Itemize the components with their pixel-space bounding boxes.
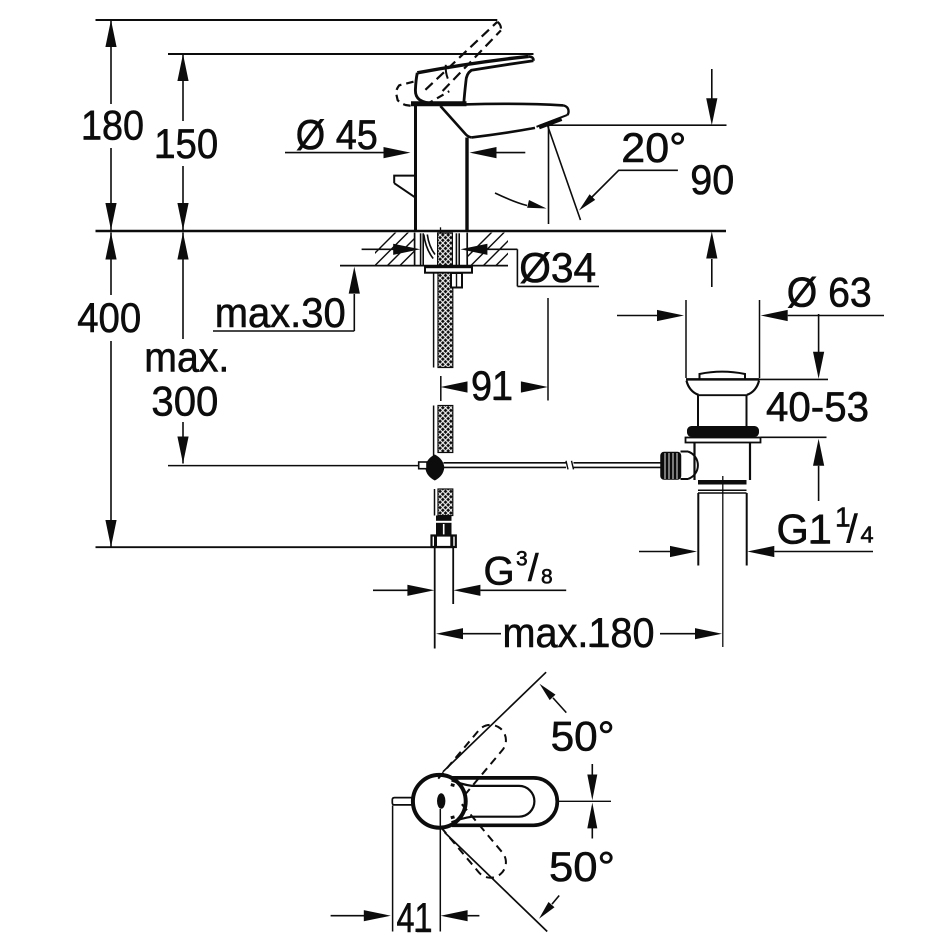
faucet body: left wall	[414, 105, 417, 230]
svg-text:400: 400	[77, 294, 141, 341]
svg-text:90: 90	[690, 156, 734, 203]
svg-text:Ø 45: Ø 45	[296, 111, 378, 158]
20 degree: leader	[591, 170, 678, 198]
hose nut	[432, 536, 456, 548]
dimension 41	[392, 806, 394, 932]
svg-text:150: 150	[154, 120, 218, 167]
svg-text:Ø34: Ø34	[519, 244, 596, 291]
top view: angle arrows at centre line	[591, 764, 593, 775]
wire: top reference line (180)	[96, 19, 498, 21]
wire: reference line (150)	[168, 53, 534, 55]
spout outlet face	[537, 115, 568, 127]
linkage rod left cap	[419, 462, 427, 469]
20 degree: swivel arc	[495, 193, 527, 206]
svg-text:20°: 20°	[621, 124, 686, 171]
drain plate	[686, 438, 761, 443]
lever tip curl	[529, 56, 534, 60]
shank walls	[421, 233, 460, 265]
braid in shank	[438, 233, 453, 266]
svg-text:180: 180	[81, 102, 144, 149]
drain flange taper	[687, 381, 699, 395]
svg-text:41: 41	[397, 894, 433, 941]
20 degree: slanted stream line	[547, 123, 581, 221]
dimension max.180	[436, 628, 463, 639]
svg-text:4: 4	[861, 521, 874, 547]
linkage joint	[425, 455, 444, 481]
lever pivot block outline	[415, 73, 433, 104]
drain neck walls	[697, 395, 699, 426]
hose end connector	[436, 516, 452, 536]
svg-text:300: 300	[151, 377, 218, 424]
dimension G1 1/4	[639, 551, 671, 553]
dashed diagonal through pivot	[426, 91, 449, 104]
dimension 40-53	[760, 378, 829, 380]
dimension 90: top reference line	[547, 124, 727, 126]
counter hatching left	[362, 231, 435, 266]
dimension max.300	[182, 233, 184, 464]
20 degree: vertical stream line	[548, 125, 550, 224]
drain rubber washer	[687, 426, 759, 437]
spout tip arc	[564, 105, 569, 115]
drain knob connector	[681, 451, 689, 453]
counter slab bottom line	[340, 265, 508, 267]
faucet body: shoulder diagonal	[440, 106, 471, 137]
wire: max.300 reference to linkage	[168, 465, 419, 467]
dimension 91	[441, 381, 468, 392]
dimension 180	[110, 20, 112, 230]
serif feet for digit 1 glyphs	[84, 136, 848, 932]
top view: dashed blade rotated down	[438, 804, 512, 884]
faucet body: top bar	[411, 101, 467, 106]
svg-text:max.30: max.30	[215, 289, 346, 336]
drain flange top	[686, 378, 760, 381]
drain centre line	[722, 476, 724, 647]
linkage rod	[444, 462, 567, 464]
svg-text:G1: G1	[777, 506, 832, 553]
top view: lower 50 leader	[552, 896, 559, 905]
top view: upper angle leg	[443, 672, 546, 772]
aerator bar	[539, 119, 562, 127]
spout top edge	[464, 104, 564, 105]
lever front face line	[446, 65, 448, 79]
top view: dashed blade rotated up	[438, 719, 512, 799]
dashed lever tip face	[497, 22, 501, 31]
dimension 150	[182, 54, 184, 230]
top view: centre line right	[558, 800, 612, 802]
svg-text:8: 8	[541, 565, 553, 588]
lever blade top edge	[417, 56, 528, 72]
svg-text:91: 91	[471, 362, 513, 409]
top view: pull rod tab	[392, 798, 413, 805]
hose braid D	[434, 489, 436, 516]
faucet centre line (shank)	[440, 227, 442, 233]
svg-text:3: 3	[516, 548, 528, 571]
lever blade underside and neck	[464, 61, 534, 103]
mounting nut flange	[425, 267, 472, 273]
drain body walls	[693, 443, 695, 481]
top view: outer blade	[452, 778, 557, 825]
top view: inner blade	[452, 780, 535, 822]
svg-text:max.: max.	[144, 333, 229, 380]
drain tailpipe walls	[697, 493, 699, 566]
dimension 400	[110, 233, 112, 548]
dimension D63	[617, 315, 658, 317]
svg-text:50°: 50°	[551, 713, 615, 760]
dimension 90: arrows	[711, 69, 713, 99]
svg-text:40-53: 40-53	[766, 383, 869, 430]
bent hose lines in shank	[424, 235, 433, 259]
supply tube walls	[434, 547, 436, 649]
dimension max.30	[213, 330, 354, 332]
dashed lever bottom edge	[443, 30, 501, 91]
faucet body: right wall	[465, 138, 468, 231]
spout underside	[472, 128, 535, 137]
top view: handle circle	[413, 775, 466, 828]
hose braid C	[433, 406, 435, 457]
pull rod (side view)	[394, 176, 415, 198]
dimension D45	[285, 152, 384, 154]
dimension D34	[362, 248, 394, 250]
wire: mounting plane line	[96, 230, 727, 233]
top view: upper 50 leader	[553, 698, 566, 713]
top view: rod hole dot	[437, 793, 445, 809]
wire: bottom reference line (400)	[96, 546, 454, 548]
svg-text:50°: 50°	[549, 843, 615, 890]
stud under flange	[451, 273, 462, 288]
drain plug cap	[700, 372, 746, 379]
svg-text:G: G	[484, 549, 515, 593]
dashed pivot block	[396, 82, 414, 107]
counter hatching right	[458, 231, 531, 266]
dimension G3/8	[373, 589, 408, 591]
top view: lower angle leg	[445, 832, 548, 931]
svg-text:max.180: max.180	[503, 609, 655, 656]
counter hole edges	[414, 233, 416, 266]
hose braid B	[433, 273, 435, 368]
svg-text:/: /	[847, 508, 859, 552]
drain dark ring	[698, 480, 747, 485]
drain knurled knob	[661, 453, 681, 480]
top view: junction ticks	[451, 785, 455, 786]
svg-text:/: /	[528, 548, 539, 590]
dashed lever top edge	[425, 22, 497, 90]
svg-text:Ø 63: Ø 63	[787, 269, 872, 316]
